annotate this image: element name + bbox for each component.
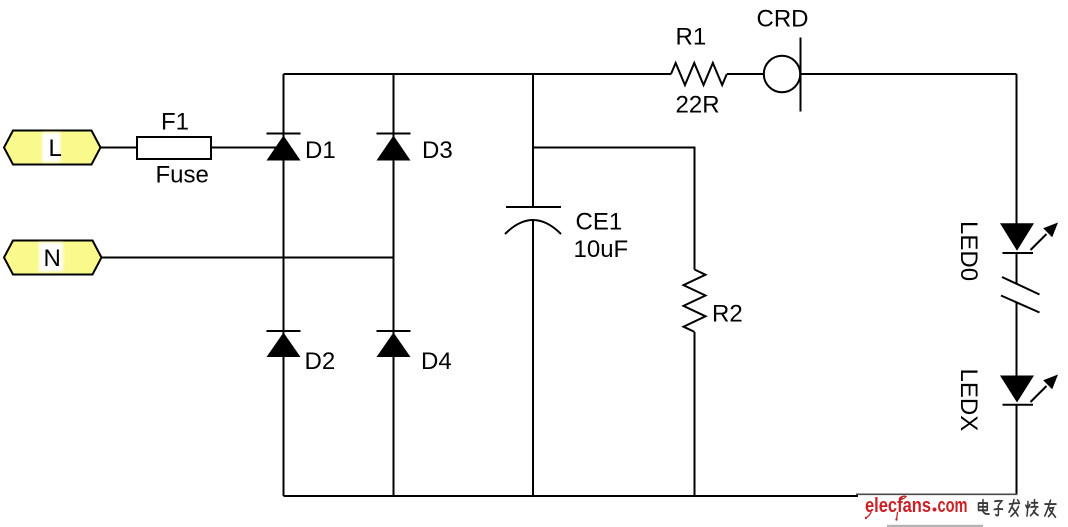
svg-text:CE1: CE1 [576,209,623,236]
svg-text:22R: 22R [676,92,720,119]
svg-text:R2: R2 [712,301,743,328]
svg-text:LEDX: LEDX [955,369,982,432]
svg-text:com: com [938,495,968,517]
svg-text:Fuse: Fuse [156,162,209,189]
svg-text:D1: D1 [305,137,336,164]
svg-text:LED0: LED0 [955,221,982,281]
svg-text:D4: D4 [421,348,452,375]
svg-text:R1: R1 [676,24,707,51]
svg-text:D3: D3 [422,137,453,164]
svg-text:F1: F1 [161,109,189,136]
svg-text:CRD: CRD [757,6,809,33]
svg-text:D2: D2 [305,348,336,375]
svg-text:10uF: 10uF [574,236,629,263]
svg-text:L: L [49,135,62,162]
svg-text:N: N [44,245,61,272]
